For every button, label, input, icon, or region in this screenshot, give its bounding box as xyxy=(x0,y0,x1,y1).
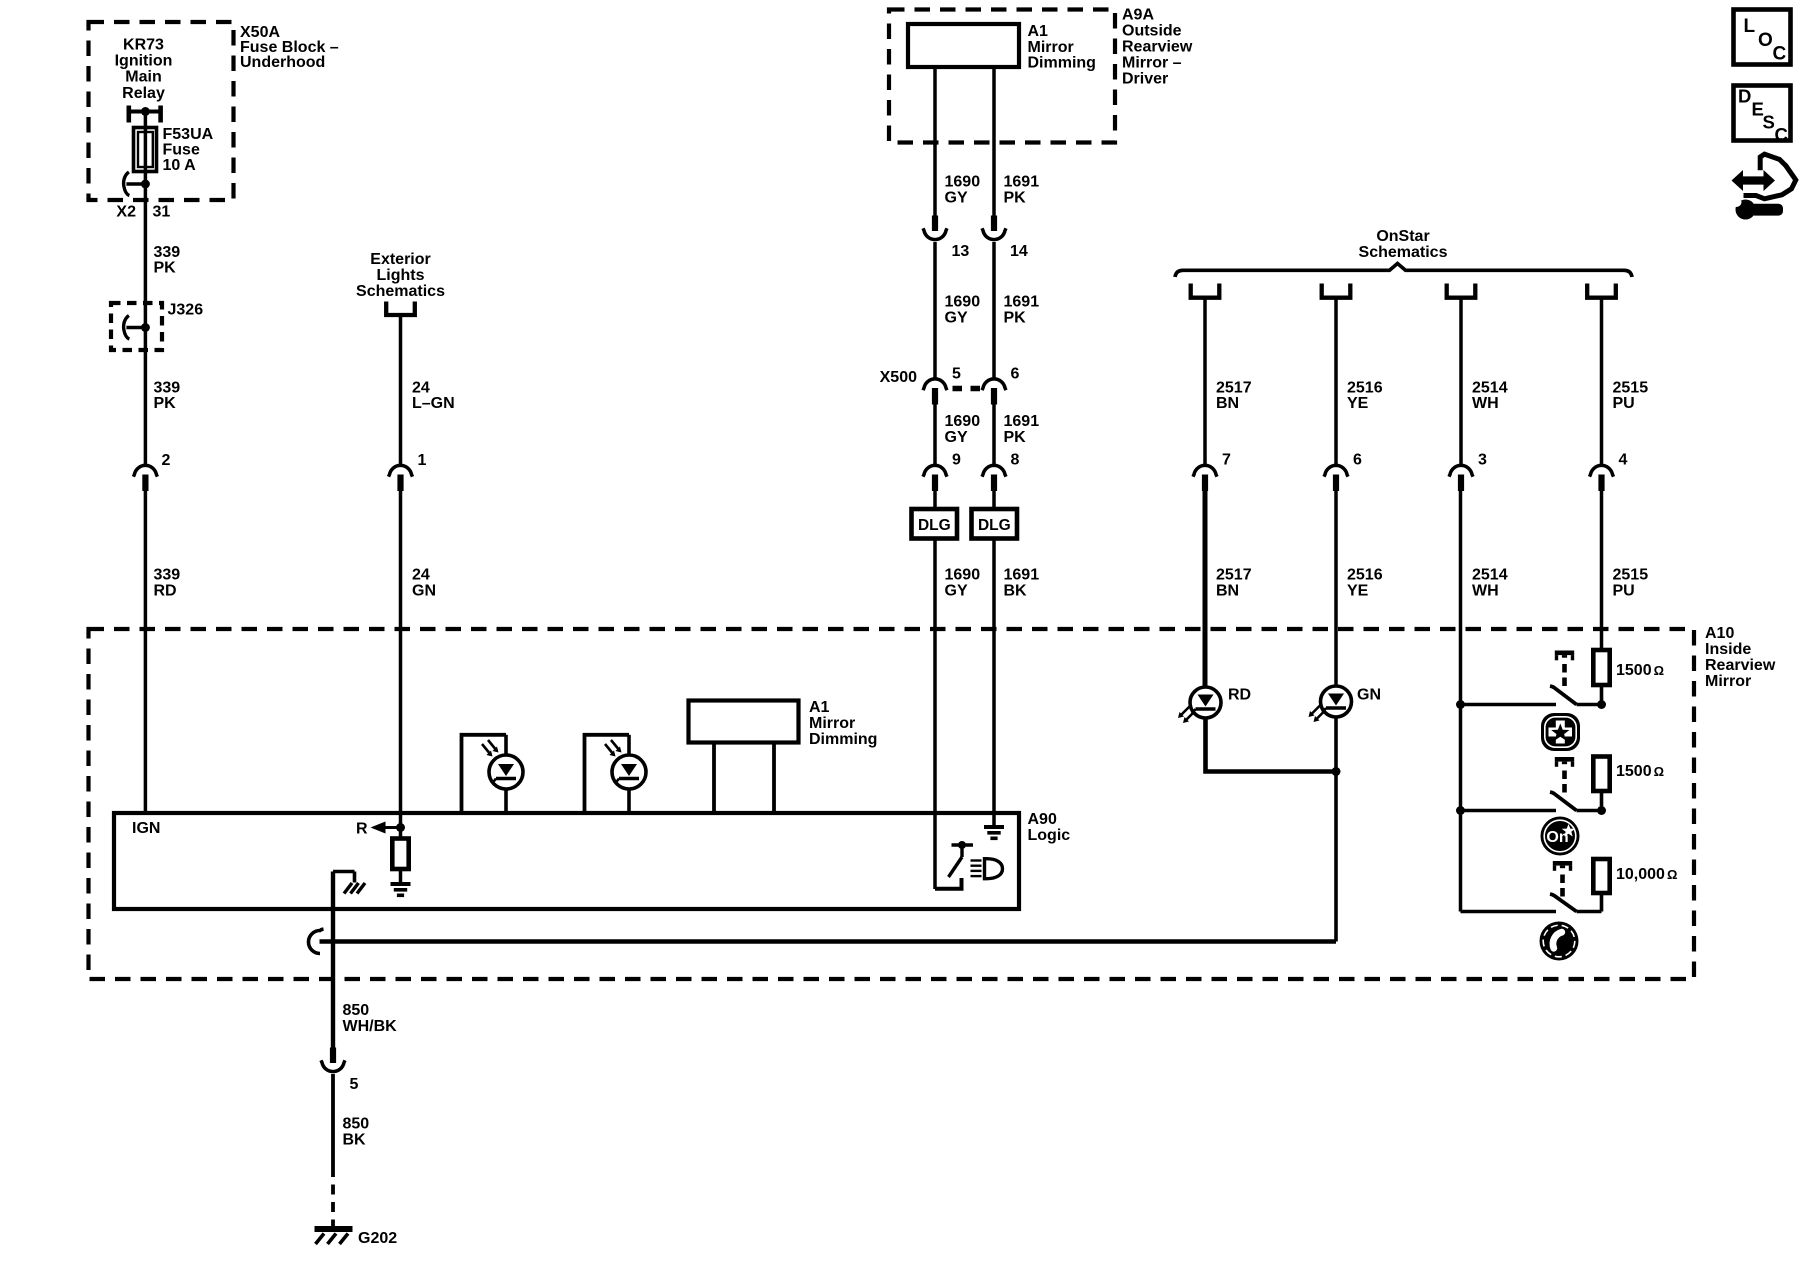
svg-text:GY: GY xyxy=(945,190,968,207)
svg-text:2515: 2515 xyxy=(1613,567,1649,584)
svg-text:1691: 1691 xyxy=(1004,567,1040,584)
svg-text:GY: GY xyxy=(945,429,968,446)
exterior lights off-page connector xyxy=(386,302,415,316)
OnStar brace xyxy=(1175,264,1632,278)
svg-text:BN: BN xyxy=(1216,583,1239,600)
svg-text:A9A: A9A xyxy=(1122,7,1154,24)
wire 2517 BN lower xyxy=(1203,491,1208,688)
wire to DLG left xyxy=(933,491,937,509)
svg-text:X2: X2 xyxy=(116,204,136,221)
svg-text:850: 850 xyxy=(343,1002,370,1019)
svg-text:J326: J326 xyxy=(168,302,204,319)
resistor 1500 ohm (row 1) xyxy=(1593,650,1609,685)
wire 2515 PU upper xyxy=(1600,298,1604,465)
svg-text:2516: 2516 xyxy=(1347,380,1383,397)
svg-text:RD: RD xyxy=(154,583,177,600)
svg-text:L: L xyxy=(1744,16,1756,37)
svg-text:2515: 2515 xyxy=(1613,380,1649,397)
wire 850 BK xyxy=(331,1074,335,1167)
svg-text:Outside: Outside xyxy=(1122,23,1182,40)
switch row 3 blade xyxy=(1550,894,1577,912)
svg-text:14: 14 xyxy=(1010,243,1028,260)
DLG splice pack left xyxy=(912,509,958,539)
A90 logic box xyxy=(114,813,1019,909)
svg-text:Logic: Logic xyxy=(1028,827,1071,844)
LOC box xyxy=(1734,10,1791,65)
svg-text:Ignition: Ignition xyxy=(115,53,173,70)
OnStar off-page connector 2 xyxy=(1322,284,1351,298)
svg-text:Schematics: Schematics xyxy=(1359,244,1448,261)
J326 dashed box xyxy=(111,303,162,350)
photo sensor 1 xyxy=(462,735,507,812)
svg-text:10,000Ω: 10,000Ω xyxy=(1616,866,1677,883)
wire 1690 GY from A1 xyxy=(933,67,937,216)
svg-text:WH: WH xyxy=(1472,395,1499,412)
svg-text:C: C xyxy=(1775,124,1788,145)
indicator LED GN xyxy=(1321,686,1352,717)
svg-text:Main: Main xyxy=(125,69,161,86)
svg-text:1690: 1690 xyxy=(945,413,981,430)
svg-text:YE: YE xyxy=(1347,395,1369,412)
wire 1691 PK mid xyxy=(992,242,996,378)
wire 2515 PU lower xyxy=(1600,491,1604,651)
svg-text:O: O xyxy=(1758,30,1773,51)
svg-text:F53UA: F53UA xyxy=(163,126,214,143)
switch row 1 actuator xyxy=(1555,651,1574,656)
A1 mirror dimming (inside) stem xyxy=(712,743,716,813)
svg-text:C: C xyxy=(1773,44,1787,65)
svg-text:4: 4 xyxy=(1619,452,1628,469)
A9A outside rearview mirror dashed box xyxy=(889,10,1115,143)
svg-text:Mirror: Mirror xyxy=(809,715,855,732)
svg-text:PK: PK xyxy=(1004,190,1027,207)
svg-text:2517: 2517 xyxy=(1216,380,1252,397)
wire 1691 BK into A10 xyxy=(992,539,996,826)
svg-text:3: 3 xyxy=(1478,452,1487,469)
wire 850 WH/BK trunk xyxy=(331,872,335,1048)
switch row 3 actuator xyxy=(1553,861,1572,866)
relay KR73 contact xyxy=(127,106,132,123)
svg-text:Schematics: Schematics xyxy=(356,283,445,300)
svg-text:GY: GY xyxy=(945,310,968,327)
wire LED GN down xyxy=(1334,717,1338,942)
A1 mirror dimming (driver) box xyxy=(908,24,1019,67)
svg-text:PK: PK xyxy=(1004,429,1027,446)
dashed wire to G202 xyxy=(331,1167,335,1227)
svg-text:RD: RD xyxy=(1228,687,1251,704)
mirror button icon (cross/star) xyxy=(1541,713,1580,751)
svg-text:1500Ω: 1500Ω xyxy=(1616,763,1664,780)
svg-text:Driver: Driver xyxy=(1122,71,1168,88)
OnStar button icon xyxy=(1541,817,1580,856)
svg-text:7: 7 xyxy=(1222,452,1231,469)
wire relay to fuse xyxy=(144,112,148,131)
switch row 1 blade xyxy=(1550,686,1577,705)
svg-text:Relay: Relay xyxy=(122,85,165,102)
svg-text:24: 24 xyxy=(412,567,430,584)
svg-text:6: 6 xyxy=(1011,366,1020,383)
DLG splice pack right xyxy=(972,509,1018,539)
svg-text:A1: A1 xyxy=(809,699,830,716)
svg-text:339: 339 xyxy=(154,567,181,584)
svg-text:Dimming: Dimming xyxy=(809,731,877,748)
connector 5 (ground) xyxy=(330,1048,336,1064)
svg-text:2516: 2516 xyxy=(1347,567,1383,584)
svg-text:1691: 1691 xyxy=(1004,294,1040,311)
svg-text:PU: PU xyxy=(1613,395,1635,412)
connector 13 xyxy=(932,216,938,232)
OnStar off-page connector 1 xyxy=(1191,284,1220,298)
svg-text:PK: PK xyxy=(154,395,177,412)
J326 splice hook xyxy=(124,316,130,340)
svg-text:On: On xyxy=(1546,829,1568,846)
A1 mirror dimming (inside) box xyxy=(689,701,799,743)
A10 inside rearview mirror dashed box xyxy=(89,629,1695,979)
svg-text:WH: WH xyxy=(1472,583,1499,600)
svg-text:X500: X500 xyxy=(880,369,917,386)
resistor 1500 ohm (row 2) xyxy=(1593,757,1609,792)
wire to DLG right xyxy=(992,491,996,509)
headlamp beam icon xyxy=(971,859,982,861)
wire 1691 PK lower xyxy=(992,404,996,465)
ground return horizontal wire xyxy=(320,939,1337,944)
row 1 wires xyxy=(1461,703,1557,707)
svg-text:Mirror: Mirror xyxy=(1028,39,1074,56)
svg-text:GN: GN xyxy=(1357,687,1381,704)
wire 339 RD xyxy=(144,491,148,813)
svg-text:Mirror: Mirror xyxy=(1705,673,1751,690)
svg-text:1690: 1690 xyxy=(945,567,981,584)
svg-text:31: 31 xyxy=(153,204,171,221)
svg-text:PK: PK xyxy=(1004,310,1027,327)
indicator LED RD xyxy=(1190,687,1221,718)
svg-text:PK: PK xyxy=(154,260,177,277)
wire 2514 WH upper xyxy=(1459,298,1463,465)
OnStar off-page connector 4 xyxy=(1587,284,1616,298)
junction LED return xyxy=(1332,767,1341,776)
svg-text:IGN: IGN xyxy=(132,820,160,837)
switch row 2 actuator xyxy=(1555,757,1574,762)
svg-text:Lights: Lights xyxy=(377,267,425,284)
svg-text:Rearview: Rearview xyxy=(1122,39,1193,56)
svg-text:5: 5 xyxy=(350,1076,359,1093)
svg-text:Fuse: Fuse xyxy=(163,142,200,159)
wire 1690 GY lower xyxy=(933,404,937,465)
row 3 wires xyxy=(1461,910,1557,914)
ground return splice arc xyxy=(309,929,324,954)
svg-text:KR73: KR73 xyxy=(123,37,164,54)
svg-text:YE: YE xyxy=(1347,583,1369,600)
svg-text:2514: 2514 xyxy=(1472,380,1508,397)
fuse F53UA xyxy=(134,128,157,172)
svg-text:OnStar: OnStar xyxy=(1376,228,1429,245)
svg-text:2514: 2514 xyxy=(1472,567,1508,584)
svg-text:9: 9 xyxy=(952,452,961,469)
chassis ground in logic box xyxy=(333,870,355,874)
resistor in logic box xyxy=(399,828,403,840)
earth ground 1691 BK xyxy=(984,825,1004,829)
svg-text:Dimming: Dimming xyxy=(1028,55,1096,72)
svg-text:GY: GY xyxy=(945,583,968,600)
svg-text:R: R xyxy=(356,821,368,838)
wire LED RD to junction xyxy=(1206,718,1337,772)
svg-text:DLG: DLG xyxy=(918,517,951,534)
svg-text:Inside: Inside xyxy=(1705,641,1751,658)
svg-text:Exterior: Exterior xyxy=(370,251,430,268)
svg-text:Mirror –: Mirror – xyxy=(1122,55,1182,72)
ground G202 xyxy=(315,1226,353,1232)
wire 2514 WH lower / ladder left rail xyxy=(1459,491,1463,912)
headlamp switch enclosure xyxy=(935,878,962,889)
svg-text:10 A: 10 A xyxy=(163,157,197,174)
svg-text:2: 2 xyxy=(162,452,171,469)
svg-text:A10: A10 xyxy=(1705,625,1734,642)
resistor 10000 ohm (row 3) xyxy=(1593,859,1609,893)
svg-text:850: 850 xyxy=(343,1116,370,1133)
vehicle data icon: double arrow xyxy=(1732,170,1776,191)
svg-text:G202: G202 xyxy=(358,1230,397,1247)
svg-text:1: 1 xyxy=(418,452,427,469)
svg-text:339: 339 xyxy=(154,380,181,397)
svg-text:Rearview: Rearview xyxy=(1705,657,1776,674)
wire 1690 GY mid xyxy=(933,242,937,378)
svg-text:Underhood: Underhood xyxy=(240,54,325,71)
earth ground in logic box xyxy=(391,882,411,886)
wire 2517 BN upper xyxy=(1203,298,1207,465)
headlamp switch xyxy=(952,843,974,846)
svg-text:2517: 2517 xyxy=(1216,567,1252,584)
X500 connector dashed link xyxy=(953,386,982,392)
wire 1690 GY into A10 xyxy=(933,539,937,890)
svg-text:1691: 1691 xyxy=(1004,413,1040,430)
svg-text:6: 6 xyxy=(1353,452,1362,469)
OnStar off-page connector 3 xyxy=(1447,284,1476,298)
svg-text:A90: A90 xyxy=(1028,811,1057,828)
phone button icon xyxy=(1540,922,1579,961)
wire 1691 PK from A1 xyxy=(992,67,996,216)
svg-text:1690: 1690 xyxy=(945,294,981,311)
svg-text:PU: PU xyxy=(1613,583,1635,600)
vehicle data icon: car outline xyxy=(1744,154,1796,199)
svg-text:WH/BK: WH/BK xyxy=(343,1018,398,1035)
photo sensor 2 xyxy=(585,735,630,812)
svg-text:8: 8 xyxy=(1011,452,1020,469)
svg-text:339: 339 xyxy=(154,244,181,261)
svg-text:BK: BK xyxy=(1004,583,1028,600)
svg-text:S: S xyxy=(1763,112,1775,133)
switch row 2 blade xyxy=(1550,792,1577,811)
svg-text:BK: BK xyxy=(343,1132,367,1149)
fuse block X50A dashed box xyxy=(89,22,234,200)
wire 2516 YE upper xyxy=(1334,298,1338,465)
svg-text:DLG: DLG xyxy=(978,517,1011,534)
svg-text:1500Ω: 1500Ω xyxy=(1616,662,1664,679)
wire 339 PK upper xyxy=(144,184,148,465)
wire 24 GN xyxy=(399,491,403,825)
wire 24 L-GN xyxy=(399,315,403,465)
relay output splice hook xyxy=(124,172,130,196)
connector 14 xyxy=(991,216,997,232)
svg-text:5: 5 xyxy=(952,366,961,383)
svg-text:L–GN: L–GN xyxy=(412,395,455,412)
svg-text:BN: BN xyxy=(1216,395,1239,412)
DESC box xyxy=(1734,86,1791,141)
vehicle data icon: wrench xyxy=(1736,200,1756,220)
svg-text:1691: 1691 xyxy=(1004,174,1040,191)
svg-text:A1: A1 xyxy=(1028,23,1049,40)
svg-text:D: D xyxy=(1738,86,1751,107)
svg-text:13: 13 xyxy=(952,243,970,260)
row 2 wires xyxy=(1461,809,1557,813)
svg-text:24: 24 xyxy=(412,380,430,397)
svg-text:GN: GN xyxy=(412,583,436,600)
wire 2516 YE lower xyxy=(1334,491,1338,687)
svg-text:1690: 1690 xyxy=(945,174,981,191)
